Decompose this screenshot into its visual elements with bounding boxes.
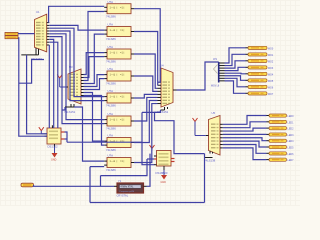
resistor R17 xyxy=(21,183,34,187)
wire U8 pin1 feed xyxy=(147,158,154,160)
wire mux1 p9 to U7 xyxy=(48,45,50,128)
svg-text:GND: GND xyxy=(161,181,167,184)
wire mux1 p5 to g6 in1 xyxy=(49,34,104,120)
wire JP1 pin1 to R1 xyxy=(225,48,246,63)
svg-text:LED0: LED0 xyxy=(288,115,295,118)
wire mux2 q1 to g3 in1 xyxy=(84,53,105,75)
svg-text:LED1: LED1 xyxy=(288,121,295,124)
wire mux2 bottom join xyxy=(62,107,65,110)
wire to g8 in2 xyxy=(90,166,104,168)
svg-text:U?A: U?A xyxy=(108,67,114,71)
wire mux1 bottom black xyxy=(21,54,38,56)
wire JP1 pin3 to R3 xyxy=(225,61,246,68)
wire mux4 pin5 to R13 xyxy=(223,138,267,141)
svg-text:U5: U5 xyxy=(212,111,216,115)
svg-text:1—& ·|: 1—& ·| xyxy=(110,96,118,99)
wire JP1 pin5 to R5 xyxy=(225,72,246,75)
resistor R6 xyxy=(246,79,274,83)
wire mux2 q3 to g1 in2 xyxy=(84,12,105,81)
svg-text:MO3: MO3 xyxy=(268,67,274,70)
wire P1 branch loop xyxy=(19,60,44,84)
XOR gate U7A 74LS86 g6 xyxy=(104,112,134,130)
wire mux1 p4 to g5 in2 xyxy=(49,31,104,101)
svg-text:Frequency=4M: Frequency=4M xyxy=(120,190,135,193)
resistor R8 xyxy=(246,92,274,96)
wire mux1 p6 to g6 in2 xyxy=(49,37,104,124)
svg-text:U?A: U?A xyxy=(108,45,114,49)
wire g8 out to mux3 in8 xyxy=(134,104,158,163)
svg-text:U?A: U?A xyxy=(108,0,114,4)
ground GND under U7 xyxy=(51,147,58,162)
wire U7 out down xyxy=(65,132,68,142)
wire g2 out to mux3 in2 xyxy=(134,32,158,86)
wire mux2 q8 to g7 in2 xyxy=(84,96,105,146)
resistor R15 xyxy=(267,152,295,156)
svg-text:DS18B20: DS18B20 xyxy=(156,171,168,175)
wire P1 to mux1 input xyxy=(18,33,35,35)
wire mux4 pin7 to R15 xyxy=(223,145,267,154)
wire mux1 p8 to U7 xyxy=(49,42,58,128)
wire mux4 bottom down xyxy=(204,154,206,203)
svg-text:LED3: LED3 xyxy=(288,134,295,137)
connector P1 xyxy=(5,32,18,38)
wire g1 out to mux3 in1 xyxy=(134,9,160,83)
svg-text:=1·|: =1·| xyxy=(120,6,125,9)
resistor R14 xyxy=(267,146,295,150)
resistor R16 xyxy=(267,158,295,162)
svg-text:MO1: MO1 xyxy=(268,54,274,57)
svg-text:U1: U1 xyxy=(36,10,40,14)
power VCC at U5 xyxy=(193,118,206,136)
wire g8 in2 vertical xyxy=(89,167,91,203)
wire g5 out to mux3 in5 xyxy=(134,94,158,98)
wire JP1 pin8 to R8 xyxy=(225,81,246,93)
resistor R9 xyxy=(267,114,295,118)
svg-text:=1·|: =1·| xyxy=(120,74,125,77)
wire U7 out to x142 xyxy=(67,141,142,143)
ground GND under U8 xyxy=(161,170,168,184)
svg-text:74LS86: 74LS86 xyxy=(106,127,116,131)
svg-text:1—& ·|: 1—& ·| xyxy=(110,6,118,9)
mux U1 74LS151 xyxy=(31,10,49,61)
svg-text:MO6: MO6 xyxy=(268,86,274,89)
svg-text:U?A: U?A xyxy=(108,134,114,138)
resistor R13 xyxy=(267,139,295,143)
svg-text:74LS151: 74LS151 xyxy=(31,57,43,61)
wire JP1 pin7 to R7 xyxy=(225,78,246,87)
svg-text:LED4: LED4 xyxy=(288,140,295,143)
XOR gate U8A 74LS86 g7 xyxy=(104,134,134,152)
svg-text:74LS86: 74LS86 xyxy=(106,37,116,41)
mux U3 74LS151 xyxy=(64,65,84,114)
wire mux1 p7 to U7 xyxy=(49,39,53,128)
svg-text:LED5: LED5 xyxy=(288,147,295,150)
svg-text:74LS86: 74LS86 xyxy=(106,14,116,18)
power VCC at U3 xyxy=(57,75,65,88)
svg-text:1—& ·|: 1—& ·| xyxy=(110,52,118,55)
wire mux2 q5 to g4 in1 xyxy=(84,75,105,87)
svg-text:MOV_8: MOV_8 xyxy=(211,85,220,88)
wire mux1 p2 to g2 in1 xyxy=(49,25,104,30)
wire mux2 bottom black xyxy=(65,106,74,108)
XOR gate U3A 74LS86 g2 xyxy=(104,23,134,41)
resistor R12 xyxy=(267,133,295,137)
svg-text:1—& ·|: 1—& ·| xyxy=(110,29,118,32)
wire mux4 pin8 to R16 xyxy=(223,148,267,160)
svg-text:LED7: LED7 xyxy=(288,159,295,162)
svg-text:=1·|: =1·| xyxy=(120,52,125,55)
svg-text:LED2: LED2 xyxy=(288,128,295,131)
svg-text:MO5: MO5 xyxy=(268,80,274,83)
resistor R1 xyxy=(246,46,274,50)
resistor R11 xyxy=(267,127,295,131)
mux U4 74LS151 xyxy=(157,64,177,115)
svg-text:MO7: MO7 xyxy=(268,93,274,96)
wire U7 out long xyxy=(65,138,68,140)
svg-text:LED6: LED6 xyxy=(288,153,295,156)
svg-text:=1·|: =1·| xyxy=(120,119,125,122)
wire mux3 bottom black xyxy=(161,109,165,111)
mux U5 74LS138 xyxy=(204,111,223,163)
wire JP1 pin6 to R6 xyxy=(225,76,246,81)
wire mux1 p3 to g5 in1 xyxy=(49,28,104,96)
XOR gate U2A 74LS86 g1 xyxy=(104,0,134,18)
wire mux3 out to JP1 xyxy=(177,62,219,90)
svg-text:U?A: U?A xyxy=(108,154,114,158)
wire chain to U8 pin2 xyxy=(142,112,154,164)
wire g3 out to mux3 in3 xyxy=(134,54,158,88)
svg-text:4 MHz XTAL: 4 MHz XTAL xyxy=(121,186,135,189)
wire mux4 bottom black xyxy=(205,157,213,159)
svg-text:74LS86: 74LS86 xyxy=(106,148,116,152)
wire crystal right up xyxy=(147,154,151,187)
resistor R2 xyxy=(246,53,274,57)
wire mux4 pin4 to R12 xyxy=(223,133,267,135)
svg-text:U?A: U?A xyxy=(108,23,114,27)
svg-text:MO4: MO4 xyxy=(268,73,274,76)
wire crystal left vertical xyxy=(100,176,102,187)
svg-text:MO2: MO2 xyxy=(268,60,274,63)
wire P1 down to U7 xyxy=(19,37,47,136)
svg-text:Y1: Y1 xyxy=(118,179,122,183)
svg-text:JP1: JP1 xyxy=(213,58,218,61)
crystal Y1 4MHz xyxy=(114,179,147,198)
svg-text:U?A: U?A xyxy=(108,112,114,116)
wire JP1 pin4 to R4 xyxy=(225,67,246,70)
resistor R7 xyxy=(246,85,274,89)
svg-text:GND: GND xyxy=(51,159,57,162)
wire g6 out to mux3 in6 xyxy=(134,97,158,121)
wire mux2 q7 to g7 in1 xyxy=(84,93,105,142)
wire g7 out to mux3 in7 xyxy=(134,101,158,143)
IC U7 DS1302 xyxy=(45,125,65,148)
wire mux1 p1 to g1 in1 xyxy=(49,6,105,22)
power VCC at U7 xyxy=(39,127,45,134)
svg-text:74LS86: 74LS86 xyxy=(106,104,116,108)
wire g4 out to mux3 in4 xyxy=(134,76,158,91)
XOR gate U5A 74LS86 g4 xyxy=(104,67,134,85)
svg-text:1—& ·|: 1—& ·| xyxy=(110,119,118,122)
wire chain top U8 pin2 xyxy=(142,111,161,113)
svg-text:1—& ·|: 1—& ·| xyxy=(110,74,118,77)
wire mux2 bottom to g8 in1 xyxy=(74,107,104,161)
resistor R4 xyxy=(246,66,274,70)
resistor R10 xyxy=(267,120,295,124)
wire mux4 pin1 to R9 xyxy=(223,116,267,125)
svg-text:1—& ·|: 1—& ·| xyxy=(110,160,118,163)
power VCC at U8 xyxy=(150,145,155,151)
wire mux2 q4 to g2 in2 xyxy=(84,34,105,83)
svg-text:CRYSTAL: CRYSTAL xyxy=(117,194,129,198)
wire mux2 q6 to g4 in2 xyxy=(84,79,105,90)
svg-text:=1·|: =1·| xyxy=(120,160,125,163)
XOR gate U6A 74LS86 g5 xyxy=(104,89,134,107)
wire mux4 pin3 to R11 xyxy=(223,128,267,131)
resistor R5 xyxy=(246,72,274,76)
svg-text:74LS86: 74LS86 xyxy=(106,60,116,64)
wire mux4 pin6 to R14 xyxy=(223,141,267,147)
bus harness JP1 xyxy=(211,58,225,88)
svg-text:74LS86: 74LS86 xyxy=(106,168,116,172)
wire mux1 bottom to U7 left xyxy=(27,55,47,134)
svg-text:MO0: MO0 xyxy=(268,47,274,50)
svg-text:U?A: U?A xyxy=(108,89,114,93)
svg-text:=1·|: =1·| xyxy=(120,96,125,99)
svg-text:=1·|: =1·| xyxy=(120,29,125,32)
wire bottom rail xyxy=(90,202,205,204)
XOR gate U9A 74LS86 g8 xyxy=(104,154,134,172)
wire mux3 bottom chain xyxy=(155,110,205,154)
wire mux4 pin2 to R10 xyxy=(223,122,267,128)
IC U8 DS18B20 xyxy=(154,151,175,176)
XOR gate U4A 74LS86 g3 xyxy=(104,45,134,63)
svg-text:74LS138: 74LS138 xyxy=(204,159,216,163)
svg-text:DS1302: DS1302 xyxy=(48,144,59,148)
svg-text:74LS86: 74LS86 xyxy=(106,82,116,86)
wire JP1 pin2 to R2 xyxy=(225,54,246,65)
wire mux2 q2 to g3 in2 xyxy=(84,57,105,78)
wire R17 to crystal xyxy=(34,185,115,186)
wire U8 pin1 vertical xyxy=(101,159,148,176)
resistor R3 xyxy=(246,59,274,63)
